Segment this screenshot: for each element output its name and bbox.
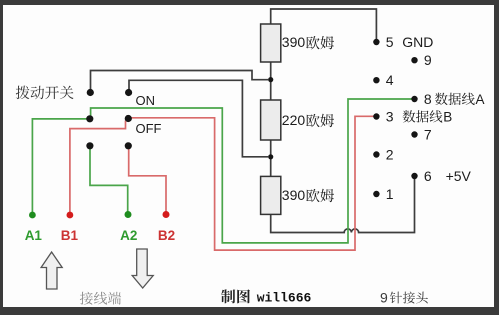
svg-text:2: 2: [386, 147, 394, 163]
svg-text:390: 390: [282, 34, 306, 50]
svg-text:B1: B1: [61, 228, 79, 243]
svg-text:220: 220: [282, 112, 306, 128]
svg-text:+5V: +5V: [446, 168, 472, 184]
svg-text:8: 8: [424, 91, 432, 107]
svg-text:3: 3: [386, 109, 394, 125]
svg-text:B2: B2: [158, 228, 175, 243]
svg-text:GND: GND: [402, 34, 433, 50]
svg-text:9: 9: [380, 290, 388, 306]
svg-text:1: 1: [386, 186, 394, 202]
svg-text:5: 5: [386, 34, 394, 50]
svg-text:7: 7: [424, 127, 432, 143]
svg-text:B: B: [443, 110, 452, 125]
svg-text:A: A: [476, 92, 485, 107]
svg-text:A2: A2: [120, 228, 137, 243]
svg-text:will666: will666: [257, 291, 312, 306]
svg-text:4: 4: [386, 72, 394, 88]
svg-text:390: 390: [282, 187, 306, 203]
svg-text:OFF: OFF: [136, 121, 162, 136]
svg-text:ON: ON: [136, 93, 156, 108]
svg-text:A1: A1: [25, 228, 43, 243]
svg-text:9: 9: [424, 52, 432, 68]
svg-text:6: 6: [424, 168, 432, 184]
